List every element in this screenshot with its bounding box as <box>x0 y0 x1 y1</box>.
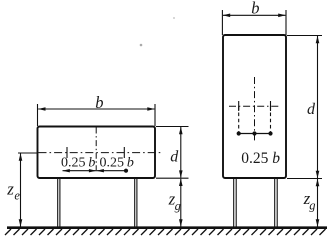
right panel force line with dots <box>237 131 273 135</box>
left panel: left support leg <box>58 179 60 228</box>
svg-text:b: b <box>251 0 259 18</box>
dimension d (left): top extension line <box>156 126 189 128</box>
label z_g (left) <box>168 189 181 213</box>
dimension z_e: top extension line <box>18 152 38 154</box>
label 0.25 b (left, second) <box>100 156 134 171</box>
right panel centerline horizontal (dash-dot) <box>229 105 281 107</box>
label b (left) <box>95 93 103 112</box>
svg-text:b: b <box>95 93 103 112</box>
label z_g (right) <box>303 189 316 213</box>
right panel centerline vertical (dash-dot) <box>254 77 256 141</box>
dimension z_g (right): dimension line with arrows <box>316 179 320 227</box>
dimension z_g (left): dimension line with arrows <box>179 179 183 227</box>
svg-text:0.25 b: 0.25 b <box>61 156 95 171</box>
left panel eccentricity tick left <box>66 147 68 158</box>
svg-text:e: e <box>14 188 20 202</box>
svg-text:z: z <box>6 179 14 198</box>
dimension b (left): extension ticks <box>38 104 156 126</box>
label b (right) <box>251 0 259 18</box>
right panel eccentricity tick left <box>238 101 240 111</box>
right panel dashed drop line left <box>238 106 240 133</box>
left panel force application dot <box>124 169 128 173</box>
right panel dashed drop line right <box>270 106 272 133</box>
dimension d (left): bottom extension line <box>156 177 189 179</box>
dimension d (right): bottom extension line <box>287 178 322 180</box>
left panel eccentricity arrow line <box>62 169 126 172</box>
right panel: right support leg <box>275 179 278 228</box>
right panel: left support leg <box>234 179 237 228</box>
svg-text:g: g <box>175 199 181 213</box>
label z_e <box>6 179 20 202</box>
left panel box <box>38 127 156 179</box>
dimension b (right): extension ticks <box>222 10 286 35</box>
label 0.25 b (left, first) <box>61 156 95 171</box>
dimension d (left): dimension line with arrows <box>179 127 183 178</box>
left panel eccentricity tick right <box>123 147 125 158</box>
svg-text:0.25 b: 0.25 b <box>241 150 280 167</box>
stray speck <box>140 17 175 46</box>
left panel centerline vertical (dash-dot) <box>95 128 97 171</box>
dimension z_e: dimension line with arrows <box>19 153 23 227</box>
left panel centerline horizontal (dash-dot) <box>39 152 161 154</box>
dimension d (right): top extension line <box>287 35 322 37</box>
svg-text:d: d <box>307 101 316 118</box>
ground line <box>7 226 327 229</box>
dimension b (left): dimension line with arrows <box>38 107 155 111</box>
left panel: right support leg <box>135 179 137 228</box>
svg-text:d: d <box>170 149 179 166</box>
dimension b (right): dimension line with arrows <box>223 14 286 18</box>
right panel eccentricity tick right <box>270 101 272 111</box>
svg-text:0.25 b: 0.25 b <box>100 156 134 171</box>
right panel box <box>223 35 286 178</box>
label d (right) <box>307 101 316 118</box>
ground hatching <box>5 229 326 235</box>
dimension d (right): dimension line with arrows <box>316 36 320 178</box>
label 0.25 b (right) <box>241 150 280 167</box>
svg-text:g: g <box>309 198 315 212</box>
label d (left) <box>170 149 179 166</box>
